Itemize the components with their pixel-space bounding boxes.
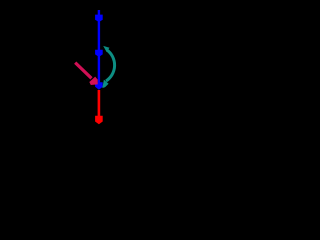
teal rotation arc — [106, 50, 115, 81]
teal arc arrowhead bottom — [102, 80, 108, 88]
teal arc arrowhead top — [103, 46, 109, 52]
crimson arrowhead — [89, 77, 97, 85]
blue arrowhead middle — [95, 50, 103, 57]
crimson vector shaft (torque) — [75, 63, 91, 79]
blue arrowhead top — [95, 15, 103, 22]
blue arrowhead bottom — [95, 82, 103, 90]
red arrowhead — [95, 116, 103, 125]
red vector shaft (gravity) — [98, 90, 101, 118]
blue vector shaft (angular momentum axis) — [98, 10, 100, 89]
